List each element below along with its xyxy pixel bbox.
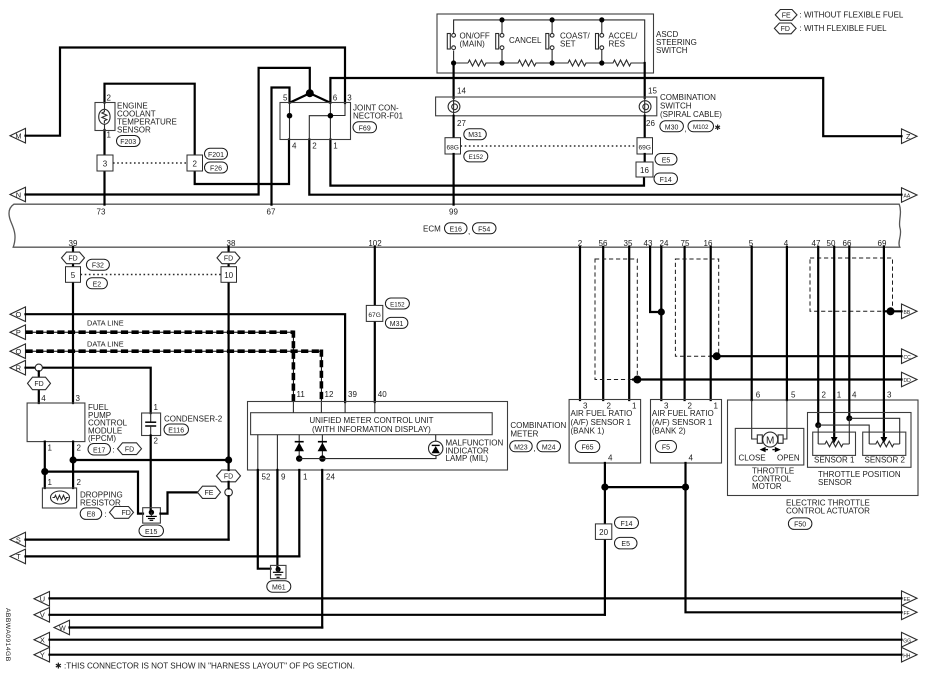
ECM bottom pin 47: [812, 239, 821, 248]
harness arrow U (left): [34, 592, 50, 607]
ECM bottom pin 5: [749, 239, 754, 248]
wire joint connector pin 2 to arrow AA: [309, 140, 901, 195]
connector F14 label at box 20: [615, 517, 639, 529]
meter bottom pin labels 52 9 1 24: [262, 473, 336, 482]
TPS internal wiring: [815, 415, 900, 444]
svg-text:O: O: [16, 310, 22, 319]
ECM bottom pin 69: [878, 239, 887, 248]
svg-text:AIR FUEL RATIO: AIR FUEL RATIO: [571, 409, 633, 418]
svg-text:M23: M23: [514, 444, 528, 451]
wire ECM pin 35 to A/F sensor 1 pin 1: [628, 247, 630, 400]
ECM bottom pin 38: [227, 239, 236, 248]
svg-text:6: 6: [333, 94, 338, 103]
wire Y line to arrow HH: [50, 654, 902, 656]
ASCD switch CANCEL: [496, 33, 542, 49]
svg-text:3: 3: [347, 94, 352, 103]
svg-text:(BANK 1): (BANK 1): [571, 427, 605, 436]
svg-text:(WITH INFORMATION DISPLAY): (WITH INFORMATION DISPLAY): [312, 425, 431, 434]
harness arrow Q (left): [10, 344, 26, 359]
ECM top pin 73: [97, 207, 106, 216]
wire ASCD left to combination switch pin 14: [453, 63, 455, 98]
wire R branch to FPCM pin 4: [38, 371, 40, 403]
ECM label E16 F54: [423, 223, 496, 236]
wire FPCM pin 1 down: [44, 442, 46, 488]
svg-text:F69: F69: [359, 125, 371, 132]
harness arrow AA (right): [902, 188, 918, 203]
svg-text:NECTOR-F01: NECTOR-F01: [353, 112, 404, 121]
svg-text:14: 14: [457, 87, 466, 96]
svg-text:SENSOR 2: SENSOR 2: [865, 456, 906, 465]
ASCD switch ON/OFF MAIN: [447, 32, 490, 50]
svg-text:39: 39: [348, 390, 357, 399]
wire 69G to pin box 16: [644, 154, 646, 162]
ECM bottom pin 4: [784, 239, 789, 248]
svg-text:4: 4: [292, 142, 297, 151]
svg-text:E5: E5: [621, 541, 630, 548]
wires meter top pins into inner box: [293, 402, 374, 413]
ASCD steering switch box: [437, 14, 654, 73]
svg-text:RES: RES: [609, 40, 625, 49]
svg-text:F65: F65: [581, 444, 593, 451]
COMBINATION SWITCH (SPIRAL CABLE) label M30 M102: [660, 93, 722, 134]
harness arrow N (left): [10, 187, 26, 202]
wire ECM pin 4 to throttle motor: [781, 247, 787, 439]
wire P data line to meter pin 11 (shielded dashed): [26, 331, 294, 403]
harness arrow W (left): [54, 620, 70, 635]
connector 67G box on pin 102 wire: [366, 305, 383, 321]
FD hexagon on FPCM pin 4 branch: [28, 377, 51, 390]
wire node to S line: [228, 464, 230, 540]
svg-text:FD: FD: [34, 381, 43, 388]
condenser-2 E116: [142, 403, 223, 446]
harness arrow CC (right): [902, 349, 918, 364]
wire ECM pin 2 to A/F sensor 1 pin 3: [579, 247, 581, 400]
svg-text:67: 67: [267, 207, 276, 216]
wire combination switch pin 26 to 69G: [644, 116, 646, 138]
connector F26 label: [205, 162, 228, 173]
ASCD internal top bus: [454, 20, 645, 63]
connector 68G box: [445, 138, 461, 154]
svg-text:BB: BB: [904, 310, 911, 316]
svg-text:E152: E152: [469, 154, 484, 161]
svg-text:F14: F14: [620, 521, 632, 528]
COMBINATION METER label M23 M24: [510, 421, 567, 453]
node diode junction dots: [296, 455, 326, 461]
harness arrow HH (right): [902, 647, 918, 662]
wire S line: [26, 538, 229, 540]
shield dashed box over pins 56/35: [595, 259, 637, 380]
wire ASCD right to combination switch pin 15: [644, 63, 646, 98]
wire bridge between sensor grounds: [601, 484, 689, 491]
svg-text:M: M: [766, 436, 774, 447]
svg-text:2: 2: [312, 142, 317, 151]
svg-text:SWITCH: SWITCH: [656, 46, 688, 55]
wire FPCM pin 1 to ground E15: [45, 472, 143, 514]
node circle on R wire: [35, 364, 42, 371]
diagram code vertical text: [4, 608, 11, 662]
connector pin box 20: [595, 524, 611, 540]
wire ECM pin 75 to A/F sensor 2 pin 2: [683, 247, 685, 400]
ELECTRIC THROTTLE CONTROL ACTUATOR label F50: [786, 499, 870, 530]
svg-text:DATA LINE: DATA LINE: [87, 340, 124, 349]
joint connector internal bus: [287, 103, 345, 140]
ECM top pin 67: [267, 207, 276, 216]
wire N to junction above joint connector: [26, 68, 310, 195]
svg-text:UNIFIED METER CONTROL UNIT: UNIFIED METER CONTROL UNIT: [309, 416, 433, 425]
svg-text::: :: [105, 510, 107, 519]
DATA LINE label 2: [87, 340, 124, 349]
svg-text:METER: METER: [510, 430, 538, 439]
svg-text:FD: FD: [125, 446, 134, 453]
svg-text:CC: CC: [904, 355, 912, 361]
svg-text:: WITHOUT FLEXIBLE FUEL: : WITHOUT FLEXIBLE FUEL: [800, 11, 904, 20]
svg-text:24: 24: [326, 473, 335, 482]
dropping resistor E8: [42, 488, 122, 508]
harness arrow BB (right): [902, 304, 918, 319]
wire W line to meter pin 24: [70, 626, 323, 628]
connector 69G box: [637, 138, 653, 154]
svg-text:S: S: [16, 535, 21, 544]
svg-text:F203: F203: [120, 139, 136, 146]
svg-text:9: 9: [281, 473, 286, 482]
svg-text:(SPIRAL CABLE): (SPIRAL CABLE): [660, 110, 722, 119]
connector F32 label: [86, 259, 109, 270]
svg-text:FE: FE: [205, 490, 214, 497]
wire ECM pin 43 joins pin 24: [650, 247, 661, 312]
unified meter control unit outer box: [248, 402, 508, 471]
connector E152 label at 67G: [385, 298, 409, 309]
svg-text:FD: FD: [781, 26, 790, 33]
wire ECM pin 67 to joint connector pin 5: [272, 88, 290, 205]
svg-text:E16: E16: [449, 226, 462, 233]
connector pin box 10 on pin 38 wire: [221, 267, 237, 283]
engine coolant temperature sensor F203: [95, 94, 177, 147]
svg-text:10: 10: [224, 271, 233, 280]
ground E15: [143, 508, 161, 523]
svg-text:ECM: ECM: [423, 225, 441, 234]
harness arrow DD (right): [902, 372, 918, 387]
svg-text:E15: E15: [145, 529, 158, 536]
svg-text:1: 1: [48, 444, 53, 453]
harness arrow R (left): [10, 360, 26, 375]
harness arrow P (left): [10, 325, 26, 340]
svg-text:Q: Q: [16, 347, 22, 356]
wire ECM pin 24 to A/F sensor 2 pin 3: [660, 247, 662, 400]
svg-text:40: 40: [378, 390, 387, 399]
wire condenser pin 2 to ground E15: [150, 436, 152, 513]
svg-text:E2: E2: [93, 281, 102, 288]
connector F14 label: [654, 173, 678, 185]
wires meter bottom pins 52 9 1 24: [258, 435, 322, 628]
svg-text:GG: GG: [903, 638, 911, 644]
FPCM bottom pin labels 1 and 2: [48, 444, 82, 453]
connector pin box 16: [636, 162, 653, 177]
svg-text:2: 2: [107, 94, 112, 103]
dotted link pin 5 to pin 10: [81, 274, 222, 276]
meter inner unit box: [251, 413, 493, 435]
connector E5 label at box 20: [615, 537, 638, 549]
throttle motor symbol: [739, 432, 800, 462]
wire V line: [50, 614, 605, 616]
ECM top pin 99: [449, 207, 458, 216]
spiral cable symbol right: [639, 97, 651, 116]
svg-text:1: 1: [837, 391, 842, 400]
svg-text:OPEN: OPEN: [777, 453, 800, 462]
wire T line to meter pin 1: [26, 555, 300, 557]
FD hexagon on pin 39 wire: [62, 252, 85, 264]
node FPCM pin 1 junction: [41, 468, 48, 475]
svg-text:Y: Y: [40, 651, 45, 660]
node junction pins 43/24: [658, 308, 665, 315]
ECM bottom pin 43: [644, 239, 653, 248]
svg-text:47: 47: [812, 239, 821, 248]
svg-text:F14: F14: [660, 177, 672, 184]
svg-text:E8: E8: [87, 512, 96, 519]
svg-text:52: 52: [262, 473, 271, 482]
throttle control motor box: [735, 428, 804, 465]
wire shield to arrow DD: [633, 376, 902, 384]
wire 68G to ECM pin 99: [453, 154, 455, 205]
FPCM pin labels 4 and 3: [41, 394, 80, 403]
FD hexagon on pin 38 wire: [217, 252, 240, 264]
wire ECM pin 69 to TPS sensor 2 wiper: [883, 247, 885, 438]
ASCD switch COAST/SET: [546, 32, 591, 50]
node FPCM pin 2 junction: [70, 456, 77, 463]
svg-text:E17: E17: [93, 447, 106, 454]
svg-text:M24: M24: [542, 444, 556, 451]
ECM bottom pin 50: [827, 239, 836, 248]
svg-text:Z: Z: [906, 132, 911, 141]
svg-text:N: N: [16, 190, 21, 199]
meter top pin labels 11 12 39 40: [297, 390, 388, 399]
svg-text:FD: FD: [68, 256, 77, 263]
svg-text:ABBWA0914GB: ABBWA0914GB: [4, 608, 11, 662]
svg-text:F26: F26: [210, 166, 222, 173]
svg-text:F54: F54: [478, 226, 490, 233]
svg-text:5: 5: [791, 391, 796, 400]
connector E8 label with FD: [80, 507, 133, 520]
svg-text:CANCEL: CANCEL: [509, 36, 542, 45]
FD hexagon on pin 38 chain: [217, 470, 241, 482]
dropping resistor pin labels 1 and 2: [48, 478, 82, 487]
svg-text:: WITH FLEXIBLE FUEL: : WITH FLEXIBLE FUEL: [800, 24, 888, 33]
node junction above joint connector F01: [306, 89, 314, 97]
connector F201 label: [205, 148, 228, 159]
svg-text:99: 99: [449, 207, 458, 216]
ECM bottom pin 39: [69, 239, 78, 248]
wire ECM pin 56 to A/F sensor 1 pin 2: [602, 247, 604, 400]
TPS sensor 2 potentiometer: [869, 437, 900, 447]
svg-text::: :: [113, 446, 115, 455]
connector pin box 2 (F201/F26): [187, 155, 203, 171]
wire ECM pin 66 to TPS supply: [848, 247, 850, 418]
ASCD switch ACCEL/RES: [596, 32, 639, 50]
ECM bottom pin 66: [843, 239, 852, 248]
wire A/F sensor 2 pin 4 to arrow FF: [686, 463, 902, 612]
wire FPCM pin 2 junction to pin 38 line junction: [73, 459, 229, 461]
wire ECM pin 16 to A/F sensor 2 pin 1: [710, 247, 712, 400]
air fuel ratio sensor 1 bank 1 box F65: [569, 400, 641, 464]
wire ECT sensor pin 1 to connector pin 3: [103, 130, 105, 155]
THROTTLE CONTROL MOTOR label: [752, 467, 794, 492]
svg-text:E116: E116: [168, 428, 184, 435]
wire ECM pin 5 to throttle motor: [752, 247, 758, 439]
electric throttle control actuator box: [728, 400, 919, 496]
svg-text:E152: E152: [390, 301, 405, 308]
wire U line to arrow EE: [50, 597, 902, 599]
svg-text:AIR FUEL RATIO: AIR FUEL RATIO: [652, 409, 714, 418]
ECM bottom pin 102: [368, 239, 382, 248]
svg-text:CONTROL ACTUATOR: CONTROL ACTUATOR: [786, 507, 870, 516]
FE hexagon at node: [198, 486, 221, 498]
svg-text:M102: M102: [693, 124, 709, 131]
spiral cable symbol left: [448, 97, 460, 116]
svg-text:66: 66: [843, 239, 852, 248]
svg-text:AA: AA: [904, 194, 911, 200]
svg-text:2: 2: [77, 478, 82, 487]
svg-text:F201: F201: [208, 152, 224, 159]
svg-text:SENSOR: SENSOR: [117, 126, 151, 135]
ECM bottom pin 24: [660, 239, 669, 248]
svg-text:1: 1: [48, 478, 53, 487]
svg-text:✱: ✱: [715, 123, 722, 132]
svg-text:M: M: [15, 132, 21, 141]
ECM bottom pin 35: [624, 239, 633, 248]
svg-text:SENSOR: SENSOR: [818, 478, 852, 487]
svg-text:M61: M61: [272, 585, 286, 592]
connector E17 label with FD: [88, 443, 142, 455]
ECM band: [9, 204, 901, 247]
harness arrow EE (right): [902, 591, 918, 606]
ECM bottom pin 75: [681, 239, 690, 248]
svg-text:1: 1: [333, 142, 338, 151]
svg-text:1: 1: [632, 401, 637, 410]
dotted link between pin 3 and pin 2: [113, 162, 187, 164]
node circle below FD hexagon: [225, 489, 233, 497]
TPS sensor 2 box: [863, 432, 906, 465]
connector E15 label: [139, 525, 164, 537]
svg-text:11: 11: [297, 390, 306, 399]
svg-text:3: 3: [887, 391, 892, 400]
wire connector pin 3 to ECM pin 73: [103, 171, 105, 205]
svg-text:3: 3: [103, 160, 108, 169]
ECM bottom pin 16: [704, 239, 713, 248]
wire joint connector pin 1 to connector 16: [330, 140, 644, 186]
wire A/F sensor 1 pin 4 to V line: [604, 463, 606, 615]
svg-text:FF: FF: [904, 611, 910, 617]
svg-text:F32: F32: [92, 263, 104, 270]
svg-text:(BANK 2): (BANK 2): [652, 427, 686, 436]
svg-text:67G: 67G: [368, 312, 380, 319]
wire junction to pin 6 (diagonal): [310, 93, 331, 103]
diode 2 inside meter: [318, 435, 328, 459]
legend FD hexagon WITH FLEXIBLE FUEL: [774, 23, 887, 34]
svg-text:2: 2: [822, 391, 827, 400]
svg-text:FD: FD: [122, 510, 131, 517]
svg-text:69G: 69G: [638, 145, 650, 152]
svg-text:DATA LINE: DATA LINE: [87, 319, 124, 328]
wire ECM pin 50 to TPS sensor 1 wiper: [833, 247, 835, 438]
wire ground E15 to FE node: [160, 492, 198, 513]
svg-text:73: 73: [97, 207, 106, 216]
svg-text:1: 1: [107, 131, 112, 140]
TPS sensor 1 box: [813, 432, 856, 465]
harness arrow Y (left): [34, 647, 50, 662]
svg-text:1: 1: [714, 401, 719, 410]
wire diodes to MIL lamp: [299, 456, 436, 459]
node junction on pin 38 wire: [225, 456, 232, 463]
svg-text:HH: HH: [903, 653, 911, 659]
svg-text:1: 1: [154, 403, 159, 412]
THROTTLE POSITION SENSOR label: [818, 470, 901, 487]
connector M31 label at 67G: [385, 317, 408, 328]
connector E2 label: [86, 278, 107, 289]
svg-text:3: 3: [76, 394, 81, 403]
svg-text:,: ,: [468, 227, 470, 236]
wire Q data line to meter pin 12 (shielded dashed): [26, 350, 322, 403]
svg-text:5: 5: [283, 94, 288, 103]
svg-text:15: 15: [648, 87, 657, 96]
svg-text:F50: F50: [794, 522, 806, 529]
wire combination switch pin 27 to ECM pin 99: [453, 116, 455, 138]
harness arrow FF (right): [902, 605, 918, 620]
svg-text:F5: F5: [662, 444, 670, 451]
svg-text:LAMP (MIL): LAMP (MIL): [446, 454, 489, 463]
svg-text:W: W: [59, 625, 66, 632]
svg-text:6: 6: [756, 391, 761, 400]
wire shield to arrow BB: [884, 307, 902, 315]
wire FPCM pin 2 down: [72, 442, 74, 488]
combination switch (spiral cable) box: [436, 87, 658, 129]
ECM bottom pin 2: [578, 239, 583, 248]
svg-text:4: 4: [41, 394, 46, 403]
shield dashed box over pins 75/16: [675, 259, 718, 356]
harness arrow V (left): [34, 608, 50, 623]
ECM bottom pin 56: [599, 239, 608, 248]
harness arrow X (left): [34, 632, 50, 647]
svg-text:FD: FD: [224, 474, 233, 481]
svg-text:FE: FE: [782, 13, 791, 20]
shield dashed box over pins 47/50/66/69: [810, 258, 893, 311]
wire junction to pin 5 (diagonal): [290, 93, 310, 103]
svg-text:M31: M31: [468, 132, 482, 139]
svg-text:69: 69: [878, 239, 887, 248]
air fuel ratio sensor 1 bank 2 box F5: [651, 400, 722, 464]
svg-text:26: 26: [646, 119, 655, 128]
svg-text:SET: SET: [560, 40, 576, 49]
wire ECM pin 102 to meter pin 40: [374, 247, 376, 402]
svg-text:27: 27: [457, 119, 466, 128]
fuel pump control module FPCM box: [27, 403, 128, 443]
harness arrow M (left): [10, 128, 26, 143]
svg-text:(FPCM): (FPCM): [88, 434, 116, 443]
wire ECM pin 38 down to junction: [228, 247, 230, 460]
svg-text:12: 12: [325, 390, 334, 399]
svg-text:,: ,: [534, 444, 536, 453]
connector M31 label: [464, 129, 487, 140]
harness arrow Z (right): [902, 129, 918, 144]
wire ECM pin 39 to FPCM pin 3: [72, 247, 74, 403]
svg-text:V: V: [40, 611, 45, 620]
wire joint connector pin 6 to arrow Z: [330, 78, 901, 136]
svg-text:MOTOR: MOTOR: [752, 482, 782, 491]
connector pin box 5 on pin 39 wire: [66, 267, 81, 283]
diode 1 inside meter: [294, 435, 304, 459]
ASCD internal bottom bus with resistors: [451, 17, 645, 66]
svg-text:DD: DD: [904, 378, 912, 384]
dotted link 68G to 69G: [461, 145, 638, 147]
connector pin box 3: [97, 155, 113, 171]
